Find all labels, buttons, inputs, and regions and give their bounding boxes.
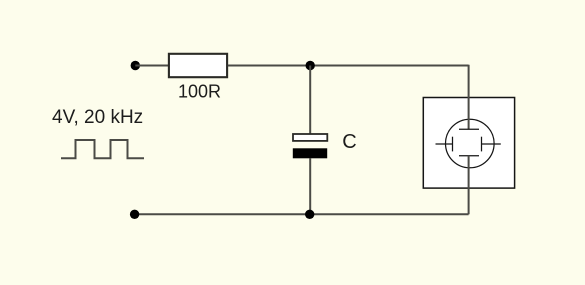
- capacitor C top plate: [293, 134, 327, 141]
- node junction top (capacitor tap): [306, 61, 315, 70]
- wire (resistor to top-right corner): [228, 65, 469, 67]
- wire (capacitor to bottom wire): [309, 158, 311, 214]
- wire (junction down to capacitor): [309, 66, 311, 135]
- node B (bottom-left terminal): [130, 210, 139, 219]
- node A (top-left terminal): [131, 61, 140, 70]
- resistor R1 body: [169, 54, 227, 77]
- CRT top deflection plate: [459, 128, 479, 130]
- CRT right deflection plate: [481, 137, 483, 152]
- capacitor C bottom plate: [293, 148, 327, 158]
- CRT bottom deflection plate: [459, 155, 479, 157]
- wire stub (left plate lead): [436, 143, 453, 145]
- CRT envelope circle: [446, 119, 495, 168]
- svg-text:C: C: [342, 131, 356, 153]
- svg-text:4V, 20 kHz: 4V, 20 kHz: [52, 107, 143, 128]
- wire (top-left dot to resistor): [135, 65, 168, 67]
- svg-text:100R: 100R: [178, 82, 221, 102]
- wire (bottom plate down to bottom wire): [468, 156, 470, 215]
- CRT left deflection plate: [452, 137, 454, 152]
- bottom wire: [135, 213, 469, 215]
- oscilloscope / CRT box: [423, 98, 514, 189]
- wire (top wire down into box): [468, 65, 470, 130]
- square wave symbol: [61, 140, 144, 158]
- node junction bottom: [305, 210, 314, 219]
- wire stub (right plate lead): [482, 143, 501, 145]
